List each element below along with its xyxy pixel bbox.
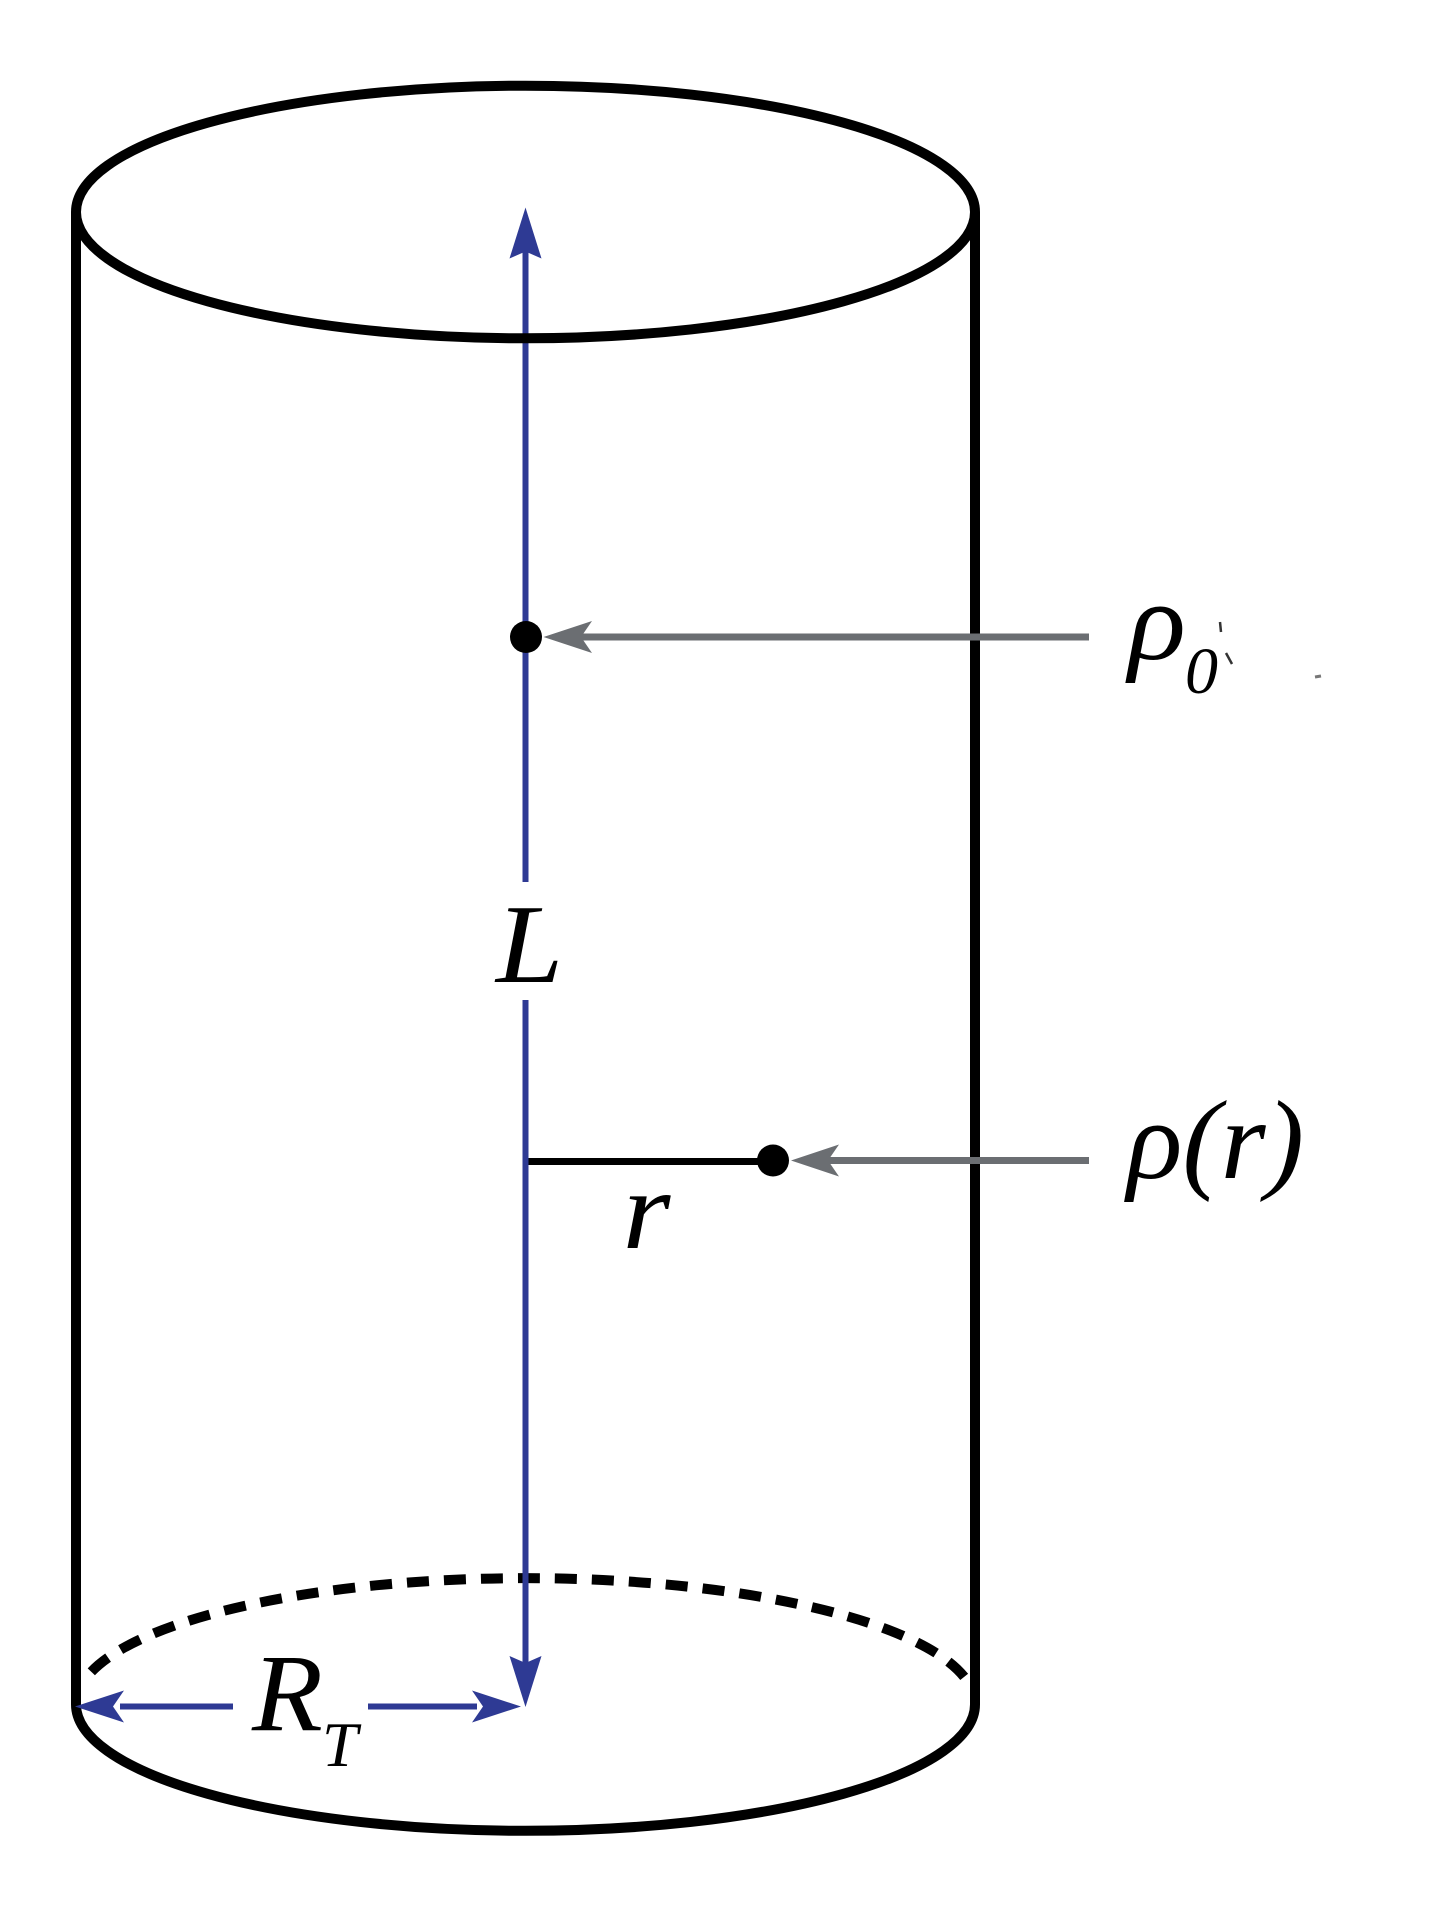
svg-text:r: r — [623, 1149, 672, 1273]
svg-text:ρ(r): ρ(r) — [1124, 1079, 1304, 1203]
svg-text:ρ: ρ — [1125, 561, 1186, 685]
svg-text:L: L — [494, 883, 563, 1007]
svg-text:R: R — [251, 1633, 323, 1755]
svg-text:0: 0 — [1185, 635, 1218, 708]
svg-text:T: T — [322, 1709, 362, 1780]
